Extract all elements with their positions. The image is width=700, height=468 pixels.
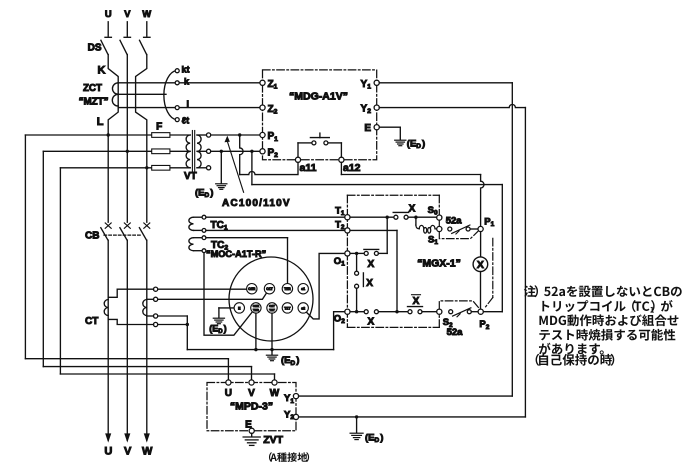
svg-text:a11: a11 <box>300 162 317 174</box>
svg-text:52a: 52a <box>446 216 463 227</box>
svg-text:W: W <box>270 388 280 399</box>
svg-text:T1T: T1T <box>284 306 291 310</box>
svg-text:X: X <box>413 296 420 307</box>
svg-text:): ) <box>380 432 383 443</box>
svg-text:T2T: T2T <box>269 308 275 312</box>
svg-text:52a: 52a <box>447 327 464 338</box>
svg-text:V: V <box>248 388 255 399</box>
svg-text:kt: kt <box>182 64 190 74</box>
svg-text:DS: DS <box>88 43 102 54</box>
svg-text:X: X <box>367 259 374 270</box>
svg-text:V: V <box>124 9 131 19</box>
svg-text:“MZT”: “MZT” <box>79 97 109 108</box>
svg-text:E: E <box>245 419 252 430</box>
svg-text:U: U <box>105 9 112 19</box>
svg-text:l: l <box>187 99 190 109</box>
svg-text:AC100/110V: AC100/110V <box>222 198 291 209</box>
svg-text:W: W <box>142 9 151 19</box>
svg-text:): ) <box>210 187 213 198</box>
svg-text:ZVT: ZVT <box>263 434 283 446</box>
svg-text:X: X <box>409 203 416 214</box>
svg-text:F: F <box>156 121 162 132</box>
svg-text:a12: a12 <box>343 162 361 174</box>
svg-text:VT: VT <box>184 171 197 182</box>
svg-text:L: L <box>97 116 104 128</box>
svg-text:V: V <box>124 446 132 458</box>
svg-text:U: U <box>225 388 232 399</box>
svg-text:C1R: C1R <box>248 287 255 291</box>
svg-text:“MDG-A1V”: “MDG-A1V” <box>289 91 348 103</box>
svg-text:T2R: T2R <box>253 308 260 312</box>
svg-text:a2: a2 <box>301 306 305 310</box>
svg-text:“MPD-3”: “MPD-3” <box>230 400 273 412</box>
svg-text:“MGX-1”: “MGX-1” <box>417 258 461 270</box>
svg-text:“MOC-A1T-R”: “MOC-A1T-R” <box>206 249 266 259</box>
svg-text:): ) <box>422 139 425 150</box>
svg-text:W: W <box>142 446 153 458</box>
svg-text:T1R: T1R <box>284 287 291 291</box>
svg-text:U: U <box>104 446 112 458</box>
svg-text:E: E <box>364 123 371 134</box>
svg-text:K: K <box>98 65 106 77</box>
svg-text:X: X <box>366 278 373 289</box>
svg-text:C1T: C1T <box>266 287 273 291</box>
svg-text:X: X <box>367 316 374 327</box>
svg-text:ℓt: ℓt <box>182 116 189 126</box>
svg-text:CB: CB <box>85 230 99 241</box>
svg-text:X: X <box>477 259 484 271</box>
svg-text:ZCT: ZCT <box>83 83 102 94</box>
svg-text:a1: a1 <box>301 287 305 291</box>
svg-text:CT: CT <box>85 316 98 327</box>
svg-text:): ) <box>224 323 227 333</box>
svg-text:): ) <box>296 355 299 366</box>
